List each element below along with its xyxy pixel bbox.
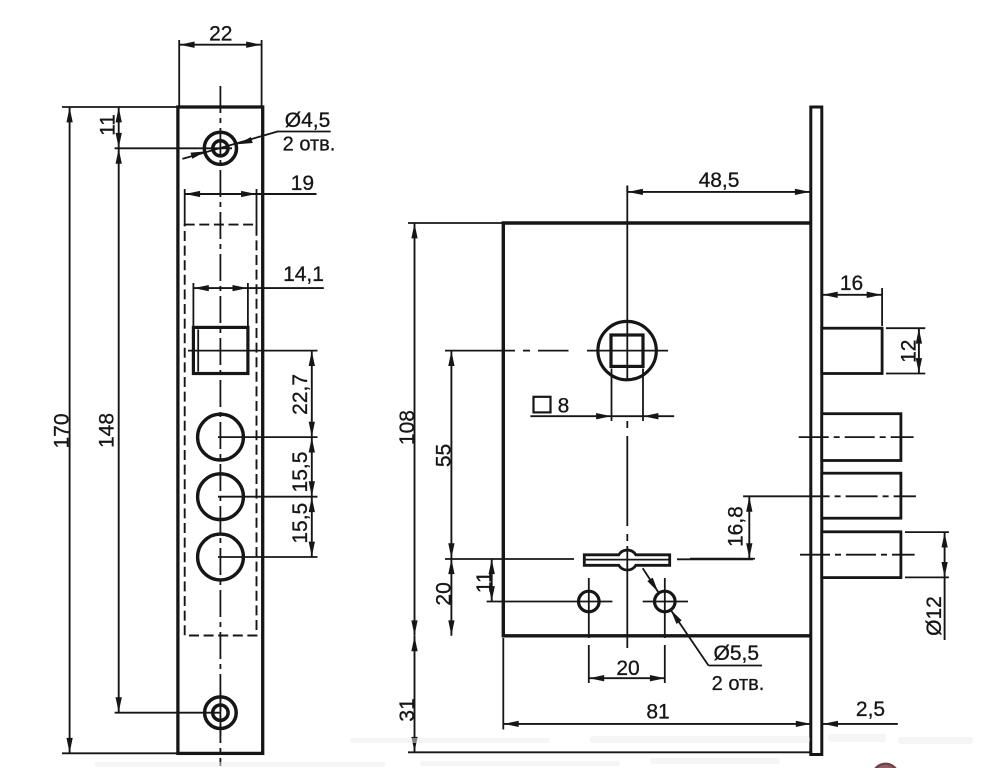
dimension 2,5 (faceplate thickness) [823,698,898,727]
centerline through top screw hole [115,147,232,149]
dimension 31 (body bottom to faceplate end) [396,636,812,753]
dimension 55 (spindle to follower) [432,351,455,559]
centerline of latch cutout extended right [188,350,318,352]
lock body hidden contour (dashed rectangle) [185,225,257,636]
vertical centerline through spindle and follower [626,186,628,649]
dimension 48,5 (spindle to faceplate) [627,169,810,195]
faceplate (front view) outline [178,107,263,753]
lock body outline (side view) [503,223,811,636]
dimension 15,5 (hole 1 to hole 2) [289,437,315,497]
spindle hub circle [598,321,656,379]
svg-text:11: 11 [473,571,496,593]
deadbolt pin 2 (side view) [822,473,901,518]
svg-text:170: 170 [51,413,74,448]
latch bolt (side view) [822,328,882,373]
top screw hole (inner circle) [213,141,228,156]
svg-text:Ø4,5: Ø4,5 [285,109,331,132]
svg-text:Ø5,5: Ø5,5 [714,642,760,665]
dimension 148 (hole spacing) [96,148,122,712]
square spindle hole 8mm [611,335,643,366]
svg-text:15,5: 15,5 [289,452,312,493]
svg-text:20: 20 [616,657,639,680]
centerline through bottom screw hole [115,692,221,736]
faceplate (side view, 2.5 thick) [811,107,822,755]
svg-text:16: 16 [840,272,863,295]
dimension 22 (faceplate width) [179,23,261,107]
follower lever (bar with round boss) [584,550,669,570]
bottom screw hole (outer ring) [205,697,237,729]
dimension 170 (faceplate height) [51,107,179,753]
svg-text:14,1: 14,1 [283,263,324,286]
shared extension line at follower level [445,558,574,560]
centerline cross of left fixing hole [487,578,613,683]
dimension 11 (top hole offset) [97,107,122,148]
centerline of hole 3 extended right [218,556,318,558]
svg-text:148: 148 [96,413,119,448]
latch edge line inside cutout [197,329,199,371]
dimension 16,8 (deadbolt pin spacing) [690,496,755,558]
dimension 14,1 (latch cutout width) [193,263,324,327]
dimension 81 (body width) [503,638,811,730]
dimension 15,5 (hole 2 to hole 3) [289,497,315,557]
svg-text:8: 8 [558,395,570,418]
svg-text:22: 22 [209,23,232,46]
fixing hole right (Ø5,5) [655,591,676,612]
centerline of deadbolt pin 3 [800,554,915,556]
svg-text:20: 20 [432,582,455,605]
svg-text:22,7: 22,7 [289,374,312,415]
svg-text:19: 19 [291,172,314,195]
horizontal centerline through spindle hub [445,350,668,352]
svg-text:108: 108 [396,410,419,445]
centerline cross of right fixing hole [643,578,688,683]
centerline of hole 2 extended right [218,496,318,498]
svg-text:81: 81 [646,701,669,724]
svg-text:11: 11 [97,114,120,136]
svg-text:2,5: 2,5 [856,698,885,721]
svg-text:Ø12: Ø12 [923,596,946,636]
dimension Ø12 (deadbolt pin diameter) [905,532,949,640]
svg-text:2 отв.: 2 отв. [283,134,336,156]
dimension 20 (follower to body bottom) [432,559,455,636]
centerline of deadbolt pin 1 [799,436,914,438]
bottom screw hole (inner circle) [213,705,228,720]
fixing hole left (Ø5,5) [579,591,600,612]
svg-text:15,5: 15,5 [289,503,312,544]
top screw hole (outer ring) [204,132,236,164]
deadbolt hole 2 (front view) [198,474,244,520]
dimension 108 (body height) [396,223,503,636]
dimension 22,7 (cutout to hole 1) [289,351,315,438]
deadbolt hole 3 (front view) [198,534,244,580]
watermark smudges bottom [95,734,973,767]
vertical centerline of faceplate [219,86,221,766]
leader Ø4,5 2 holes [182,109,335,159]
svg-text:12: 12 [897,340,920,363]
deadbolt pin 1 (side view) [822,414,901,461]
svg-text:31: 31 [396,698,419,721]
centerline of hole 1 extended right [218,436,318,438]
deadbolt pin 3 (side view) [822,532,901,578]
svg-text:2 отв.: 2 отв. [712,673,765,695]
dimension 20 (fixing holes spacing) [589,657,666,681]
dimension square 8 (spindle hole) [530,369,674,422]
dimension 19 (dashed body width) [185,172,317,226]
latch cutout (square opening 14,1) [193,327,248,373]
svg-text:16,8: 16,8 [725,506,748,547]
deadbolt hole 1 (front view) [198,414,244,460]
dimension 12 (latch bolt height) [886,328,925,373]
red watermark logo (cut off at bottom edge) [873,764,899,768]
svg-text:48,5: 48,5 [699,169,740,192]
horizontal centerline through follower lever [585,558,754,560]
dimension 16 (latch bolt length) [822,272,882,326]
dimension 11 (follower to fixing holes) [473,559,496,602]
centerline of deadbolt pin 2 [743,495,916,497]
svg-text:55: 55 [432,444,455,467]
leader Ø5,5 2 holes [643,568,765,695]
